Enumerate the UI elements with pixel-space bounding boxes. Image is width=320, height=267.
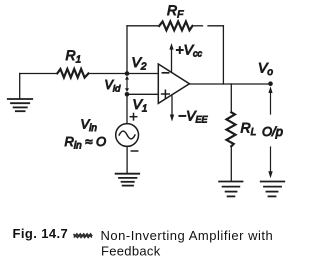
wire source to ground bbox=[126, 146, 128, 173]
wire op-amp output to node Vo bbox=[189, 83, 270, 85]
svg-text:Fig. 14.7: Fig. 14.7 bbox=[13, 226, 69, 241]
feedback wire: left vertical from top corner to node V2 bbox=[126, 26, 128, 74]
ground left bbox=[8, 99, 32, 111]
O/p indicator: lower arrow pointing down to ground bbox=[268, 147, 272, 178]
wire RL to ground bbox=[230, 146, 232, 181]
node V2 bbox=[125, 71, 130, 76]
resistor RF bbox=[159, 22, 192, 31]
feedback wire: top right horizontal (scan-broken dashes) bbox=[194, 25, 203, 27]
publisher logo scribble bbox=[74, 234, 93, 238]
resistor RL bbox=[227, 112, 236, 146]
wire left drop to ground bbox=[19, 74, 21, 99]
wire input left segment bbox=[20, 73, 58, 75]
ground under source bbox=[116, 174, 140, 186]
wire V2 node to op-amp inverting input bbox=[127, 73, 158, 75]
resistor R1 bbox=[57, 69, 88, 78]
node V1 bbox=[125, 92, 130, 97]
wire V1 node down to source bbox=[126, 94, 128, 123]
op-amp plus sign bbox=[162, 90, 170, 98]
wire output down to RL bbox=[230, 84, 232, 112]
ground under RL bbox=[219, 182, 242, 197]
svg-text:Non-Inverting Amplifier with: Non-Inverting Amplifier with bbox=[101, 228, 274, 243]
node Vo bbox=[268, 81, 273, 86]
ground right (output reference) bbox=[261, 182, 285, 197]
wire V1 node to op-amp non-inverting input bbox=[127, 93, 158, 95]
feedback wire: top left horizontal bbox=[127, 25, 159, 27]
feedback wire: right vertical down to output bbox=[222, 26, 224, 84]
svg-text:Rin ≈ O: Rin ≈ O bbox=[65, 134, 107, 152]
op-amp U1 triangle bbox=[158, 64, 189, 103]
op-amp minus sign bbox=[162, 72, 168, 74]
source Vin (sine source) bbox=[116, 124, 139, 147]
svg-text:Feedback: Feedback bbox=[101, 244, 161, 259]
svg-text:O/p: O/p bbox=[262, 124, 283, 139]
minus sign of source bbox=[131, 150, 137, 152]
-VEE supply arrow bbox=[170, 96, 174, 122]
plus sign of source bbox=[130, 114, 136, 120]
O/p indicator: upper arrow pointing up to node Vo bbox=[268, 86, 272, 114]
arrow Vid (double-headed between nodes) bbox=[125, 76, 129, 92]
+Vcc supply arrow bbox=[169, 43, 173, 72]
wire R1 to node V2 bbox=[89, 73, 127, 75]
